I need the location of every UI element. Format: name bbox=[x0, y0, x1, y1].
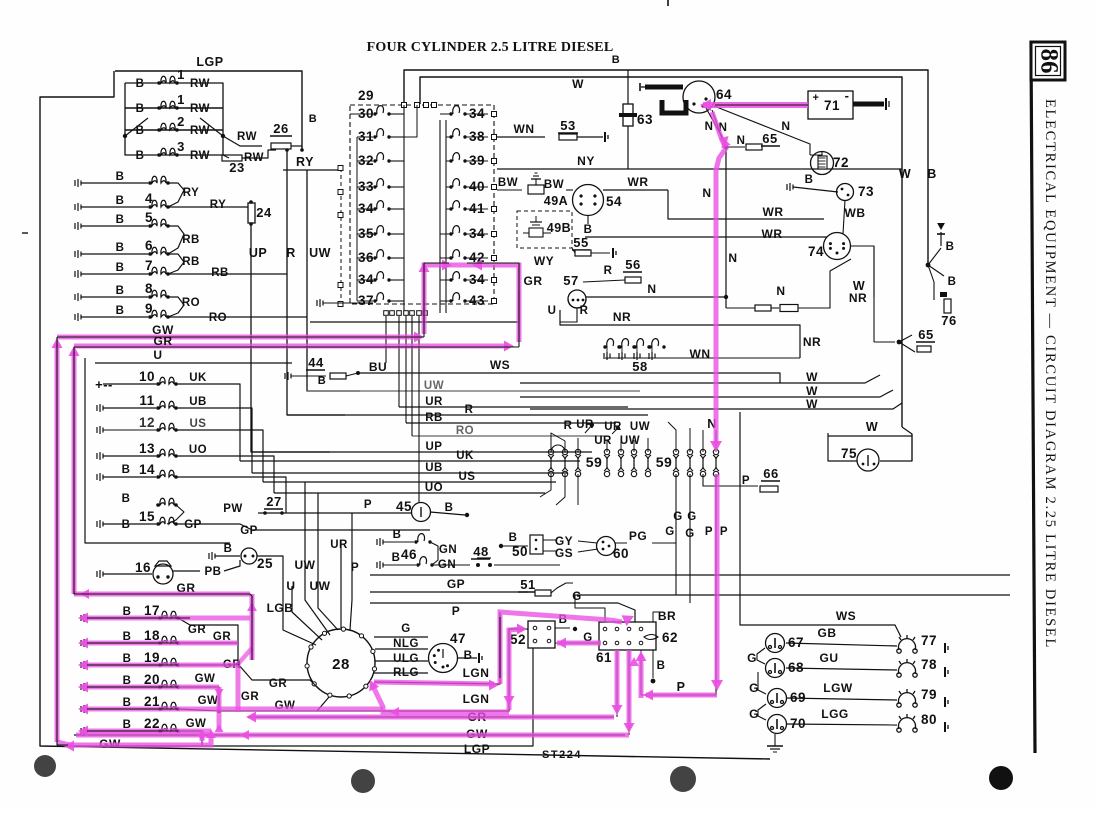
svg-text:80: 80 bbox=[921, 712, 937, 727]
svg-text:W: W bbox=[806, 370, 818, 384]
wire UP vertical bbox=[251, 224, 330, 452]
warning lamp 70 bbox=[768, 715, 787, 734]
svg-text:BW: BW bbox=[544, 179, 564, 191]
wire N lower junction bbox=[724, 295, 728, 299]
wire BR bbox=[653, 612, 662, 622]
left border wire bbox=[40, 71, 770, 759]
svg-text:B: B bbox=[657, 660, 666, 672]
svg-text:B: B bbox=[136, 150, 145, 162]
svg-text:24: 24 bbox=[256, 205, 272, 220]
connector 59 bbox=[631, 449, 637, 476]
connector 59 bbox=[575, 449, 581, 476]
registration tick top bbox=[667, 0, 669, 6]
radio choke 78 bbox=[897, 659, 917, 677]
highlight: GR mid vertical bbox=[250, 594, 255, 660]
highlight: GW top long bbox=[57, 335, 419, 340]
svg-text:-: - bbox=[845, 88, 850, 103]
svg-text:B: B bbox=[116, 262, 125, 274]
wires from fuse box bottom bbox=[385, 316, 387, 363]
wire U from 57 bbox=[310, 290, 519, 322]
svg-text:76: 76 bbox=[941, 313, 956, 328]
wire GB bbox=[786, 643, 897, 646]
svg-text:NR: NR bbox=[613, 310, 631, 324]
wire RY row4 bbox=[168, 183, 184, 207]
svg-text:GW: GW bbox=[195, 673, 216, 685]
svg-text:44: 44 bbox=[308, 355, 324, 370]
highlight: into 61 top from left diag bbox=[610, 620, 622, 622]
svg-text:65: 65 bbox=[918, 327, 933, 342]
svg-text:1: 1 bbox=[177, 92, 185, 107]
ground row 9 bbox=[75, 313, 81, 321]
svg-text:WR: WR bbox=[762, 227, 783, 241]
page number 86 box bbox=[1031, 42, 1065, 80]
svg-text:49A: 49A bbox=[544, 194, 568, 208]
wire NR upper bbox=[560, 310, 800, 358]
wire R vertical bbox=[286, 150, 288, 274]
junction 65 right bbox=[874, 341, 895, 343]
switch 15 upper bbox=[156, 498, 178, 507]
distributor 54 bbox=[566, 189, 573, 191]
wire LGP long bbox=[65, 648, 533, 746]
wires WR bbox=[668, 190, 824, 219]
highlight: corner bottom left bbox=[57, 742, 70, 745]
warning lamp 68 bbox=[766, 659, 785, 678]
svg-text:RY: RY bbox=[183, 187, 200, 199]
svg-text:51: 51 bbox=[520, 577, 535, 592]
svg-text:RO: RO bbox=[182, 297, 200, 309]
wire loop 42 (under highlight) bbox=[424, 263, 449, 337]
svg-text:UW: UW bbox=[295, 558, 316, 572]
svg-text:PG: PG bbox=[629, 529, 647, 543]
svg-text:NR: NR bbox=[849, 291, 867, 305]
svg-text:N: N bbox=[728, 251, 737, 265]
svg-text:16: 16 bbox=[135, 560, 151, 575]
wire P long2 bbox=[370, 603, 635, 622]
svg-text:G: G bbox=[401, 623, 410, 635]
svg-text:WR: WR bbox=[763, 205, 784, 219]
svg-text:BW: BW bbox=[498, 177, 518, 189]
svg-text:72: 72 bbox=[833, 155, 849, 170]
svg-text:5: 5 bbox=[145, 210, 153, 225]
warning lamp 67 bbox=[766, 634, 785, 653]
wire W top bbox=[420, 77, 902, 427]
wire GW long bbox=[74, 734, 625, 736]
svg-text:8: 8 bbox=[145, 281, 153, 296]
highlight: P wire left bbox=[646, 693, 717, 698]
svg-text:RW: RW bbox=[190, 125, 210, 137]
thermostat 49A bbox=[497, 189, 522, 191]
radio choke 77 bbox=[897, 635, 917, 653]
svg-text:63: 63 bbox=[637, 112, 653, 127]
svg-text:71: 71 bbox=[824, 98, 840, 113]
svg-text:B: B bbox=[946, 241, 955, 253]
connector 61 62 bbox=[599, 622, 656, 650]
svg-text:4: 4 bbox=[145, 191, 153, 206]
fuse box bottom terminals bbox=[384, 311, 389, 316]
wires P P bbox=[703, 474, 758, 486]
svg-text:B: B bbox=[136, 78, 145, 90]
dashed feeder line left bbox=[340, 168, 342, 304]
svg-text:29: 29 bbox=[358, 88, 374, 103]
svg-text:23: 23 bbox=[229, 160, 244, 175]
svg-text:58: 58 bbox=[632, 359, 647, 374]
svg-text:77: 77 bbox=[921, 633, 937, 648]
highlight: GW long line bbox=[76, 733, 629, 738]
ink blob 3 bbox=[670, 766, 696, 792]
highlight: LGN lower / 28 terminal bbox=[372, 684, 509, 712]
fuse 65 top bbox=[724, 145, 728, 149]
highlight: N vertical below connector bbox=[715, 474, 720, 684]
switch 17 ground bbox=[81, 614, 87, 622]
svg-text:64: 64 bbox=[716, 87, 732, 102]
svg-text:GS: GS bbox=[555, 546, 573, 560]
svg-text:UO: UO bbox=[425, 482, 443, 494]
svg-text:U: U bbox=[548, 305, 557, 317]
highlight: row22 down bbox=[200, 731, 205, 741]
svg-text:LGB: LGB bbox=[267, 601, 294, 615]
sidebar rule bbox=[1031, 41, 1035, 753]
ground 37 bbox=[317, 299, 323, 307]
svg-text:UO: UO bbox=[189, 444, 207, 456]
svg-text:59: 59 bbox=[586, 454, 603, 470]
highlight: diag row19 up bbox=[238, 648, 252, 664]
svg-text:UW: UW bbox=[424, 380, 444, 392]
highlight: 61 to 52 G wire bbox=[557, 641, 601, 646]
svg-text:12: 12 bbox=[139, 415, 155, 430]
ground row 6 bbox=[75, 250, 81, 258]
svg-text:RB: RB bbox=[425, 412, 443, 424]
wires into 28 top bbox=[283, 618, 316, 645]
svg-text:13: 13 bbox=[139, 441, 155, 456]
svg-text:B: B bbox=[509, 532, 518, 544]
svg-text:B: B bbox=[309, 113, 317, 125]
svg-text:BR: BR bbox=[658, 609, 676, 623]
connector 59 bbox=[618, 449, 624, 476]
warning lamps 67-70 bbox=[744, 640, 746, 648]
svg-text:RW: RW bbox=[190, 78, 210, 90]
wire WB bbox=[843, 200, 845, 234]
fuses 34-43 right column bbox=[449, 106, 466, 116]
connector 59 bbox=[645, 449, 651, 476]
highlight: second left vertical bbox=[72, 352, 77, 594]
svg-text:UW: UW bbox=[310, 579, 331, 593]
highlight: GW bottom line bbox=[68, 733, 211, 745]
svg-text:B: B bbox=[116, 195, 125, 207]
wire P bottom bbox=[641, 694, 716, 696]
svg-text:G: G bbox=[572, 591, 581, 603]
wire LGN vertical x500 (under highlight) bbox=[499, 617, 501, 678]
svg-text:GW: GW bbox=[186, 718, 207, 730]
svg-text:N: N bbox=[705, 121, 714, 133]
svg-text:B: B bbox=[445, 502, 454, 514]
wire NR right vertical bbox=[873, 246, 875, 342]
switch 18 ground bbox=[81, 639, 87, 647]
wire WS to 77 bbox=[740, 412, 901, 637]
svg-text:9: 9 bbox=[145, 301, 153, 316]
svg-text:P: P bbox=[452, 604, 461, 618]
svg-text:GR: GR bbox=[524, 274, 543, 288]
wire NR left bbox=[497, 215, 560, 217]
svg-text:R: R bbox=[580, 305, 589, 317]
glow plug 1 bbox=[157, 76, 179, 85]
ignition-starter switch 28 bbox=[307, 629, 375, 697]
ground B small bbox=[940, 232, 942, 246]
fuse 27 + wire PW bbox=[176, 505, 256, 508]
switch 21 ground bbox=[81, 705, 87, 713]
svg-text:45: 45 bbox=[396, 499, 412, 514]
right border bottom segment bbox=[902, 427, 912, 461]
wire UR into 28 bbox=[340, 540, 342, 628]
horn relay 73 bbox=[787, 183, 793, 191]
highlight: GR top long bbox=[74, 344, 508, 349]
glow plug 2 bbox=[157, 123, 179, 132]
fuse 51 bbox=[535, 590, 551, 596]
svg-text:B: B bbox=[393, 529, 402, 541]
svg-text:WN: WN bbox=[690, 347, 711, 361]
wire LGG bbox=[786, 724, 897, 725]
svg-text:79: 79 bbox=[921, 687, 937, 702]
svg-text:GN: GN bbox=[439, 544, 457, 556]
ink blob 2 bbox=[351, 769, 375, 793]
svg-text:UP: UP bbox=[249, 246, 267, 260]
svg-text:WS: WS bbox=[490, 358, 510, 372]
svg-text:65: 65 bbox=[762, 131, 777, 146]
svg-text:R: R bbox=[604, 265, 613, 277]
glow plug unit 49B bbox=[517, 211, 572, 248]
highlight: rows 17-22 stubs bbox=[82, 616, 250, 621]
svg-text:ELECTRICAL EQUIPMENT — CIRCUIT: ELECTRICAL EQUIPMENT — CIRCUIT DIAGRAM 2… bbox=[1042, 99, 1058, 649]
highlight: LGN lower up to 52 bbox=[509, 629, 522, 710]
svg-text:G: G bbox=[749, 707, 759, 721]
svg-text:P: P bbox=[720, 526, 728, 538]
svg-text:3: 3 bbox=[177, 139, 185, 154]
svg-text:N: N bbox=[647, 282, 656, 296]
svg-text:US: US bbox=[459, 471, 476, 483]
svg-text:49B: 49B bbox=[547, 221, 571, 235]
svg-text:UW: UW bbox=[630, 421, 650, 433]
svg-text:B: B bbox=[116, 242, 125, 254]
svg-text:N: N bbox=[702, 186, 711, 200]
svg-text:WS: WS bbox=[836, 609, 856, 623]
svg-text:RO: RO bbox=[209, 312, 227, 324]
svg-text:RLG: RLG bbox=[393, 667, 419, 679]
ground row 7 bbox=[75, 270, 81, 278]
svg-text:ULG: ULG bbox=[393, 653, 419, 665]
battery 71 bbox=[808, 91, 853, 119]
svg-text:P: P bbox=[705, 526, 713, 538]
svg-text:UW: UW bbox=[620, 435, 640, 447]
svg-text:GP: GP bbox=[447, 577, 465, 591]
radio choke 79 bbox=[897, 689, 917, 707]
wire GR to 28 bbox=[238, 664, 320, 690]
svg-text:74: 74 bbox=[808, 244, 824, 259]
svg-text:NLG: NLG bbox=[393, 638, 419, 650]
ground row 8 bbox=[75, 293, 81, 301]
registration tick left bbox=[22, 232, 28, 234]
highlight: 61 down to GW long bbox=[627, 650, 632, 728]
ground row 4a bbox=[75, 179, 81, 187]
svg-text:W: W bbox=[899, 167, 911, 181]
svg-text:10: 10 bbox=[139, 369, 155, 384]
svg-text:B: B bbox=[948, 276, 957, 288]
svg-text:73: 73 bbox=[858, 184, 874, 199]
wire from 67 up bbox=[772, 630, 870, 637]
ground row 4 bbox=[75, 203, 81, 211]
svg-text:GR: GR bbox=[241, 691, 259, 703]
svg-text:GW: GW bbox=[198, 695, 219, 707]
ground row 5 bbox=[75, 222, 81, 230]
svg-text:UR: UR bbox=[330, 539, 348, 551]
svg-text:26: 26 bbox=[273, 121, 288, 136]
svg-text:RW: RW bbox=[190, 103, 210, 115]
svg-text:86: 86 bbox=[1036, 49, 1063, 74]
flasher 74 bbox=[824, 233, 851, 260]
svg-text:B: B bbox=[122, 464, 131, 476]
hazard switch 47 bbox=[374, 636, 428, 638]
wires from generator to N junction bbox=[706, 108, 726, 144]
svg-text:P: P bbox=[677, 680, 686, 694]
svg-text:1: 1 bbox=[177, 67, 185, 82]
svg-text:RB: RB bbox=[182, 234, 200, 246]
switch 48 bbox=[432, 564, 470, 566]
connector 59 bbox=[562, 449, 568, 476]
svg-text:60: 60 bbox=[613, 546, 629, 561]
svg-text:7: 7 bbox=[145, 258, 153, 273]
fuse 53 bbox=[497, 136, 545, 138]
highlight: row20-21 link bbox=[217, 687, 222, 730]
wire NY bbox=[497, 168, 902, 170]
wire G long bbox=[370, 574, 1010, 576]
svg-text:W: W bbox=[806, 384, 818, 398]
svg-text:48: 48 bbox=[473, 544, 488, 559]
connector 50 bbox=[499, 544, 503, 548]
resistor 63 bbox=[627, 70, 629, 104]
wire GR top (under highlight) bbox=[74, 346, 519, 348]
svg-text:B: B bbox=[318, 375, 326, 387]
wire WS right bbox=[779, 383, 781, 420]
resistors 1-3 box bbox=[125, 83, 223, 155]
svg-text:W: W bbox=[806, 397, 818, 411]
svg-text:G: G bbox=[673, 511, 682, 523]
wires rows 17-22 to junctions bbox=[178, 618, 238, 662]
wire GP row15 bbox=[167, 505, 184, 524]
svg-text:75: 75 bbox=[841, 446, 857, 461]
wire LGW bbox=[786, 698, 897, 700]
highlight: N vertical to connector bbox=[714, 168, 719, 444]
switch 20 ground bbox=[81, 683, 87, 691]
switch 22 ground bbox=[81, 727, 87, 735]
svg-text:UR: UR bbox=[425, 396, 443, 408]
highlight: left tall vertical bbox=[55, 344, 60, 742]
fuse 66 bbox=[760, 486, 778, 492]
panel lamp 75 bbox=[828, 435, 912, 437]
svg-text:+: + bbox=[813, 92, 820, 104]
svg-text:GB: GB bbox=[818, 626, 837, 640]
svg-text:B: B bbox=[122, 493, 131, 505]
svg-text:P: P bbox=[364, 499, 372, 511]
svg-text:WY: WY bbox=[534, 254, 554, 268]
svg-text:62: 62 bbox=[662, 630, 678, 645]
svg-text:LGW: LGW bbox=[823, 681, 853, 695]
svg-text:52: 52 bbox=[510, 632, 526, 647]
svg-text:G: G bbox=[747, 651, 757, 665]
wire GU bbox=[786, 668, 897, 670]
fuse 55 bbox=[575, 250, 591, 256]
wire RB rows 5-7 bbox=[168, 226, 184, 254]
svg-text:B: B bbox=[464, 650, 473, 662]
svg-text:53: 53 bbox=[560, 118, 575, 133]
svg-text:N: N bbox=[781, 119, 790, 133]
svg-text:WB: WB bbox=[845, 206, 866, 220]
svg-text:GR: GR bbox=[269, 678, 287, 690]
svg-text:61: 61 bbox=[596, 650, 612, 665]
svg-text:P: P bbox=[351, 560, 360, 574]
fuse box 29 dashed outline bbox=[350, 105, 494, 304]
svg-text:54: 54 bbox=[606, 194, 622, 209]
wire WS bbox=[358, 373, 780, 383]
ground under lamps bbox=[774, 734, 776, 746]
svg-text:G: G bbox=[665, 526, 674, 538]
svg-text:RY: RY bbox=[296, 155, 314, 169]
fuse 23 bbox=[222, 155, 242, 161]
diode 25 bbox=[209, 552, 215, 560]
svg-text:69: 69 bbox=[790, 690, 806, 705]
svg-text:PB: PB bbox=[205, 566, 222, 578]
svg-text:B: B bbox=[927, 167, 937, 181]
svg-text:28: 28 bbox=[332, 656, 350, 673]
wires W W W bbox=[520, 375, 880, 383]
svg-text:47: 47 bbox=[450, 631, 466, 646]
ignition warning 45 bbox=[412, 503, 431, 522]
connector 59 bbox=[700, 449, 706, 476]
glow plugs 58 bbox=[603, 339, 620, 349]
svg-text:57: 57 bbox=[563, 273, 578, 288]
svg-text:N: N bbox=[776, 284, 785, 298]
instrument box bbox=[85, 358, 230, 543]
wire G into 61 bbox=[583, 600, 601, 622]
svg-text:78: 78 bbox=[921, 657, 937, 672]
svg-text:B: B bbox=[116, 214, 125, 226]
wire RO rows 8-9 bbox=[168, 297, 184, 317]
wires below connectors bbox=[540, 474, 551, 497]
svg-text:NR: NR bbox=[803, 335, 821, 349]
wire GW top (under highlight) bbox=[57, 336, 424, 338]
svg-text:B: B bbox=[116, 285, 125, 297]
svg-text:B: B bbox=[805, 174, 814, 186]
svg-text:W: W bbox=[866, 420, 878, 434]
highlight: loop up at 42 bbox=[424, 265, 519, 342]
svg-text:UK: UK bbox=[456, 450, 474, 462]
wire fan UW..UO to connectors 59 bbox=[307, 390, 640, 392]
ink blob 1 bbox=[34, 755, 56, 777]
svg-text:66: 66 bbox=[763, 466, 778, 481]
svg-text:B: B bbox=[612, 54, 620, 66]
svg-text:46: 46 bbox=[401, 547, 417, 562]
svg-text:GR: GR bbox=[154, 334, 173, 348]
svg-text:UB: UB bbox=[189, 396, 207, 408]
wire from 74 right bbox=[851, 246, 874, 297]
svg-text:W: W bbox=[572, 77, 584, 91]
svg-text:GR: GR bbox=[188, 624, 206, 636]
highlight: LGN upper bbox=[374, 682, 494, 684]
svg-text:G: G bbox=[749, 681, 759, 695]
svg-text:NY: NY bbox=[577, 154, 595, 168]
svg-text:R: R bbox=[465, 404, 474, 416]
svg-text:RB: RB bbox=[182, 256, 200, 268]
wire GP long bbox=[370, 591, 528, 593]
highlight: GR mid wire bbox=[74, 592, 250, 597]
svg-text:RY: RY bbox=[210, 199, 227, 211]
